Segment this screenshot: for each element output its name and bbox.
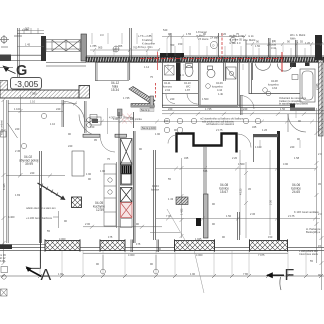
svg-text:K decorline: K decorline	[142, 42, 156, 46]
dimension: living room inner dims	[6, 112, 162, 229]
marker: section F	[266, 267, 295, 290]
svg-text:A: A	[41, 267, 52, 284]
wall: koupelna right divider	[249, 63, 300, 94]
svg-text:1 58: 1 58	[294, 156, 300, 160]
wall: living room left wall line	[7, 100, 8, 243]
svg-text:loznice: loznice	[151, 188, 160, 192]
fixture: shower cabin	[226, 67, 236, 79]
svg-text:1 745: 1 745	[123, 96, 130, 100]
fixture: kitchen island dark block	[72, 197, 82, 208]
svg-text:koupelna: koupelna	[212, 85, 223, 89]
wire: red riser at hala	[157, 52, 159, 70]
svg-text:905: 905	[25, 27, 30, 31]
svg-text:1 4: 1 4	[180, 73, 184, 77]
symbol: circled node top right	[230, 37, 235, 42]
svg-text:905: 905	[98, 46, 103, 50]
svg-text:4 000: 4 000	[59, 237, 66, 241]
svg-text:1 745: 1 745	[205, 107, 212, 111]
svg-text:1.90: 1.90	[113, 117, 119, 121]
svg-text:1 925: 1 925	[195, 237, 202, 241]
dimension: bedroom dim line	[155, 150, 318, 235]
wire: red riser kitchen stack	[221, 33, 223, 57]
wall: diagonal ramp in hala	[129, 87, 155, 109]
svg-text:komora: komora	[163, 85, 172, 89]
svg-text:Wm. b. Mehk: Wm. b. Mehk	[290, 33, 306, 37]
svg-text:m okn 2.0: m okn 2.0	[229, 41, 241, 45]
svg-text:1 500: 1 500	[202, 97, 209, 101]
dimension: vertical chain near stair	[180, 158, 249, 238]
fixture: WC toilet	[185, 64, 193, 77]
wall: upper-left balcony rail vertical pair	[14, 28, 44, 91]
wall: komora divider	[128, 28, 297, 107]
svg-text:905: 905	[118, 44, 123, 48]
svg-text:odl balustru m2 stavebni: odl balustru m2 stavebni	[206, 122, 235, 126]
fixture: bathtub right	[300, 69, 315, 102]
svg-text:240: 240	[30, 171, 35, 175]
fixture: wardrobe column	[72, 151, 84, 176]
svg-text:1 90: 1 90	[100, 169, 106, 173]
svg-text:240: 240	[290, 145, 295, 149]
svg-text:K 10X zavel ventilace: K 10X zavel ventilace	[294, 210, 319, 214]
wall: bottom facade line	[0, 245, 324, 251]
wall: tub pier dark block	[290, 104, 295, 108]
wall: kitchen counter line	[116, 162, 118, 228]
svg-text:koupelna: koupelna	[268, 83, 279, 87]
svg-text:1 90: 1 90	[58, 272, 64, 276]
symbol: circled plus	[113, 46, 119, 52]
svg-text:15.67: 15.67	[220, 190, 228, 194]
svg-text:175: 175	[136, 242, 141, 246]
svg-text:240: 240	[15, 127, 20, 131]
door: WC door arc	[187, 94, 198, 105]
wall: interior wall y106	[162, 105, 290, 107]
svg-text:150: 150	[90, 125, 95, 129]
wall: dark pier left of balcony	[41, 36, 46, 61]
wire: red cross hatch at shaft top	[122, 114, 132, 124]
svg-text:2 20: 2 20	[232, 156, 238, 160]
dimension: top annotation rows with ticks	[17, 28, 324, 52]
wall: grey pier	[81, 34, 87, 61]
svg-text:240: 240	[68, 144, 73, 148]
svg-text:odstin oken tel a stam ten: odstin oken tel a stam ten	[26, 206, 56, 210]
shaft: black X box	[121, 188, 133, 203]
door: komora door arc	[166, 94, 175, 104]
svg-text:39.99: 39.99	[25, 162, 33, 166]
svg-text:+1.100 zeme hardcore: +1.100 zeme hardcore	[26, 216, 53, 220]
wall: small dark box shaft top	[118, 109, 123, 116]
svg-text:1 50: 1 50	[226, 214, 232, 218]
wall: corridor stub walls	[204, 146, 206, 194]
door: kitchen door arc	[101, 138, 116, 153]
door: stair right door arc	[238, 134, 252, 148]
svg-text:2 50: 2 50	[269, 199, 273, 205]
svg-text:4.400: 4.400	[8, 215, 15, 219]
svg-text:1 785: 1 785	[90, 44, 97, 48]
door: living room door arc	[64, 102, 85, 123]
wall: bedroom partial pier	[238, 212, 240, 240]
svg-text:2 175: 2 175	[216, 128, 223, 132]
svg-text:Wm. Mehk: Wm. Mehk	[243, 38, 256, 42]
wall: main top facade band	[86, 57, 324, 62]
svg-text:D: D	[213, 44, 215, 48]
svg-text:240: 240	[168, 107, 173, 111]
symbol: koupelna tag circles	[263, 88, 271, 96]
wall: facade block 1	[45, 241, 80, 251]
door: stair left door arc	[168, 135, 177, 144]
wall: corridor stub grey segment	[204, 194, 209, 238]
svg-text:1 90: 1 90	[86, 172, 92, 176]
wall: grey block near stair	[176, 197, 188, 205]
svg-text:15.34: 15.34	[111, 88, 119, 92]
svg-text:2 175: 2 175	[288, 214, 295, 218]
svg-text:240: 240	[56, 107, 61, 111]
dimension: bottom tick clusters	[41, 253, 159, 274]
leader: small diagonal top-left	[8, 123, 18, 138]
svg-text:1 90: 1 90	[155, 132, 161, 136]
svg-text:1 50: 1 50	[280, 107, 286, 111]
svg-text:1 425: 1 425	[180, 208, 184, 215]
svg-text:2 3: 2 3	[318, 212, 322, 216]
svg-text:760: 760	[170, 43, 175, 47]
svg-text:1.87: 1.87	[185, 88, 191, 92]
svg-text:240: 240	[243, 107, 248, 111]
svg-text:540: 540	[163, 28, 168, 32]
svg-text:1 100: 1 100	[255, 145, 262, 149]
fixture: twin sinks	[256, 64, 293, 72]
svg-text:1 26: 1 26	[262, 128, 268, 132]
svg-text:7.580: 7.580	[30, 92, 37, 96]
svg-text:12.59: 12.59	[96, 208, 104, 212]
svg-text:le zaroblest stylou plastst: le zaroblest stylou plastst	[279, 102, 308, 106]
svg-text:3.42: 3.42	[271, 46, 277, 50]
svg-text:B ths p. 60m: B ths p. 60m	[138, 45, 153, 49]
shaft: dark vent block	[121, 166, 132, 174]
wall: small rooms bottom wall	[162, 93, 198, 95]
dimension: hala vertical dim	[107, 108, 109, 134]
dimension: left vertical chain	[2, 95, 23, 265]
wire: red riser OT	[281, 52, 283, 72]
wall: facade block 2	[100, 241, 125, 251]
wall: left exterior pier	[0, 55, 11, 62]
svg-text:Budovjdlly a: Budovjdlly a	[306, 230, 321, 234]
wall: hala corner top	[96, 62, 130, 81]
symbol: left edge box lower	[1, 289, 8, 296]
svg-text:L.TS + 2.85: L.TS + 2.85	[138, 34, 152, 38]
svg-text:2 0: 2 0	[318, 152, 322, 156]
svg-text:1 14: 1 14	[144, 65, 150, 69]
svg-text:150: 150	[268, 235, 273, 239]
svg-text:240: 240	[164, 119, 169, 123]
dimension: bottom main chain	[0, 253, 324, 278]
svg-text:5a cs p 100: 5a cs p 100	[142, 126, 156, 130]
door: komora right door arc	[241, 96, 255, 110]
wall: slab end block	[79, 86, 90, 99]
symbol: corridor door tag circles	[164, 118, 261, 133]
svg-text:2 45: 2 45	[15, 149, 21, 153]
dimension: full-width mid chain	[85, 120, 324, 124]
wire: ledge line above box	[0, 67, 13, 69]
svg-text:7 975: 7 975	[258, 253, 265, 257]
leader: hardcore note leader	[53, 211, 59, 228]
svg-text:6 425: 6 425	[2, 183, 6, 190]
svg-text:04-09: 04-09	[216, 81, 223, 85]
fixture: WC box right bath	[292, 75, 298, 80]
wire: red riser hala lower	[155, 83, 157, 99]
svg-text:345: 345	[203, 169, 208, 173]
svg-text:1 45: 1 45	[25, 43, 31, 47]
symbol: hala tag circles	[87, 115, 97, 128]
symbol: circled D	[210, 41, 217, 48]
svg-text:345: 345	[184, 156, 189, 160]
svg-text:b 05: b 05	[0, 259, 6, 263]
wall: lower-left facade slab with hatch	[0, 90, 80, 98]
svg-text:4.64: 4.64	[272, 86, 278, 90]
node: level annotation -3,005	[11, 78, 42, 90]
svg-text:stoup vedeni: stoup vedeni	[0, 120, 4, 135]
svg-text:G: G	[16, 63, 27, 79]
svg-text:1 100: 1 100	[14, 107, 21, 111]
dimension: extra top ticks row	[92, 33, 305, 57]
wall: window jambs in facade	[131, 240, 159, 253]
wall: left corner wedge	[0, 81, 8, 91]
svg-text:NWs: NWs	[290, 37, 296, 41]
dimension: band window ticks	[45, 239, 288, 252]
svg-text:1 20: 1 20	[221, 32, 227, 36]
fixture: kitchen cabinets	[104, 164, 116, 226]
svg-text:1 20: 1 20	[305, 41, 311, 45]
node: level target G	[3, 63, 28, 79]
svg-text:04-08: 04-08	[271, 79, 278, 83]
svg-text:4 000: 4 000	[128, 253, 135, 257]
svg-text:-3,005: -3,005	[15, 79, 39, 89]
wall: bath bottom wall right	[290, 108, 315, 111]
svg-text:1.4b: 1.4b	[218, 92, 224, 96]
wall: facade black bar left	[0, 245, 12, 250]
dimension: corridor horizontal chain	[162, 111, 324, 116]
svg-text:150: 150	[178, 42, 183, 46]
wall: stair recess wall	[177, 134, 237, 153]
svg-text:1 43: 1 43	[168, 197, 174, 201]
symbol: left edge box mid	[1, 131, 7, 137]
svg-text:1 4: 1 4	[272, 40, 276, 44]
fixture: washer in komora	[165, 66, 175, 76]
svg-text:K kabrier: K kabrier	[142, 38, 153, 42]
leader: stray diagonal lines bottom	[167, 209, 189, 247]
svg-text:04-04: 04-04	[152, 184, 159, 188]
wall: kitchen-bedroom divider	[154, 150, 156, 240]
svg-text:240: 240	[170, 97, 175, 101]
door: bedroom door arc	[288, 114, 306, 132]
wire: red service line horizontal	[140, 58, 283, 60]
svg-text:04-10: 04-10	[184, 81, 191, 85]
svg-text:24.65: 24.65	[292, 190, 300, 194]
wall: right top pier	[315, 35, 322, 60]
label: grey boxes with text	[140, 108, 154, 111]
symbol: tag circle koupelna	[206, 84, 211, 89]
wall: living/hala partition	[62, 100, 86, 133]
wall: facade block 3	[175, 241, 215, 251]
shaft: installation shaft column	[119, 112, 135, 243]
svg-text:4 90: 4 90	[283, 162, 289, 166]
svg-text:345: 345	[252, 125, 257, 129]
svg-text:4 000: 4 000	[196, 253, 203, 257]
svg-text:1 10: 1 10	[50, 122, 56, 126]
shaft: red X box	[121, 203, 133, 218]
wall: facade block 4	[250, 241, 288, 251]
svg-text:1 10: 1 10	[30, 100, 36, 104]
wire: left edge survey symbol	[0, 35, 9, 47]
svg-text:1 83: 1 83	[15, 193, 21, 197]
dimension: under-slab dim	[8, 102, 77, 106]
svg-text:4 125: 4 125	[239, 188, 243, 195]
door: hala main door arc	[79, 115, 101, 137]
svg-text:7 80: 7 80	[243, 272, 249, 276]
svg-text:4.44: 4.44	[217, 88, 223, 92]
svg-text:175: 175	[108, 235, 113, 239]
wall: lower-left window wall vertical	[40, 151, 42, 243]
svg-text:1 90: 1 90	[190, 272, 196, 276]
svg-text:2X drez: 2X drez	[210, 36, 220, 40]
wall: thick bedroom divider	[277, 131, 280, 240]
svg-text:1 55: 1 55	[186, 32, 192, 36]
svg-text:1 500: 1 500	[238, 162, 245, 166]
wall: small pier right bath	[290, 62, 296, 67]
svg-text:2 00: 2 00	[85, 222, 91, 226]
svg-text:sdk pricka: sdk pricka	[130, 117, 142, 121]
svg-text:760: 760	[133, 46, 138, 50]
fixture: hala niche box	[90, 117, 101, 125]
wall: bedroom top L-wall	[253, 134, 278, 137]
svg-text:1 50: 1 50	[255, 44, 261, 48]
dimension: bedroom lower dim line	[150, 217, 320, 233]
wall: WC-komora vertical pier	[176, 53, 181, 81]
svg-text:F: F	[285, 267, 295, 284]
wall: column block	[196, 218, 201, 226]
svg-text:7 05: 7 05	[166, 214, 172, 218]
svg-text:3.3: 3.3	[100, 33, 104, 37]
dimension: extension lines above facade band	[95, 38, 311, 56]
wall: right exterior wall	[319, 60, 324, 136]
svg-text:2.04: 2.04	[165, 88, 171, 92]
svg-text:m dv: m dv	[248, 34, 254, 38]
svg-text:Cleml stes sleds: Cleml stes sleds	[299, 252, 319, 256]
dimension: right vertical chain	[315, 62, 324, 290]
svg-text:5a cs p.: 5a cs p.	[141, 108, 150, 112]
marker: section A	[26, 188, 52, 284]
svg-text:2 345: 2 345	[315, 83, 319, 90]
leader: living room ramp arrow	[38, 183, 65, 199]
svg-text:04-11: 04-11	[164, 81, 171, 85]
svg-text:WC: WC	[186, 85, 190, 89]
wall: balcony frame with X bracing	[46, 40, 81, 52]
fixture: bath sink circle	[207, 66, 215, 78]
wall: dark segment over WC	[160, 53, 184, 58]
dimension: extension lines below bottom wall	[40, 251, 306, 275]
svg-text:2 36: 2 36	[250, 212, 256, 216]
svg-text:2X dvere: 2X dvere	[198, 37, 209, 41]
wall: hala-kuchyne wall segments	[83, 134, 100, 137]
